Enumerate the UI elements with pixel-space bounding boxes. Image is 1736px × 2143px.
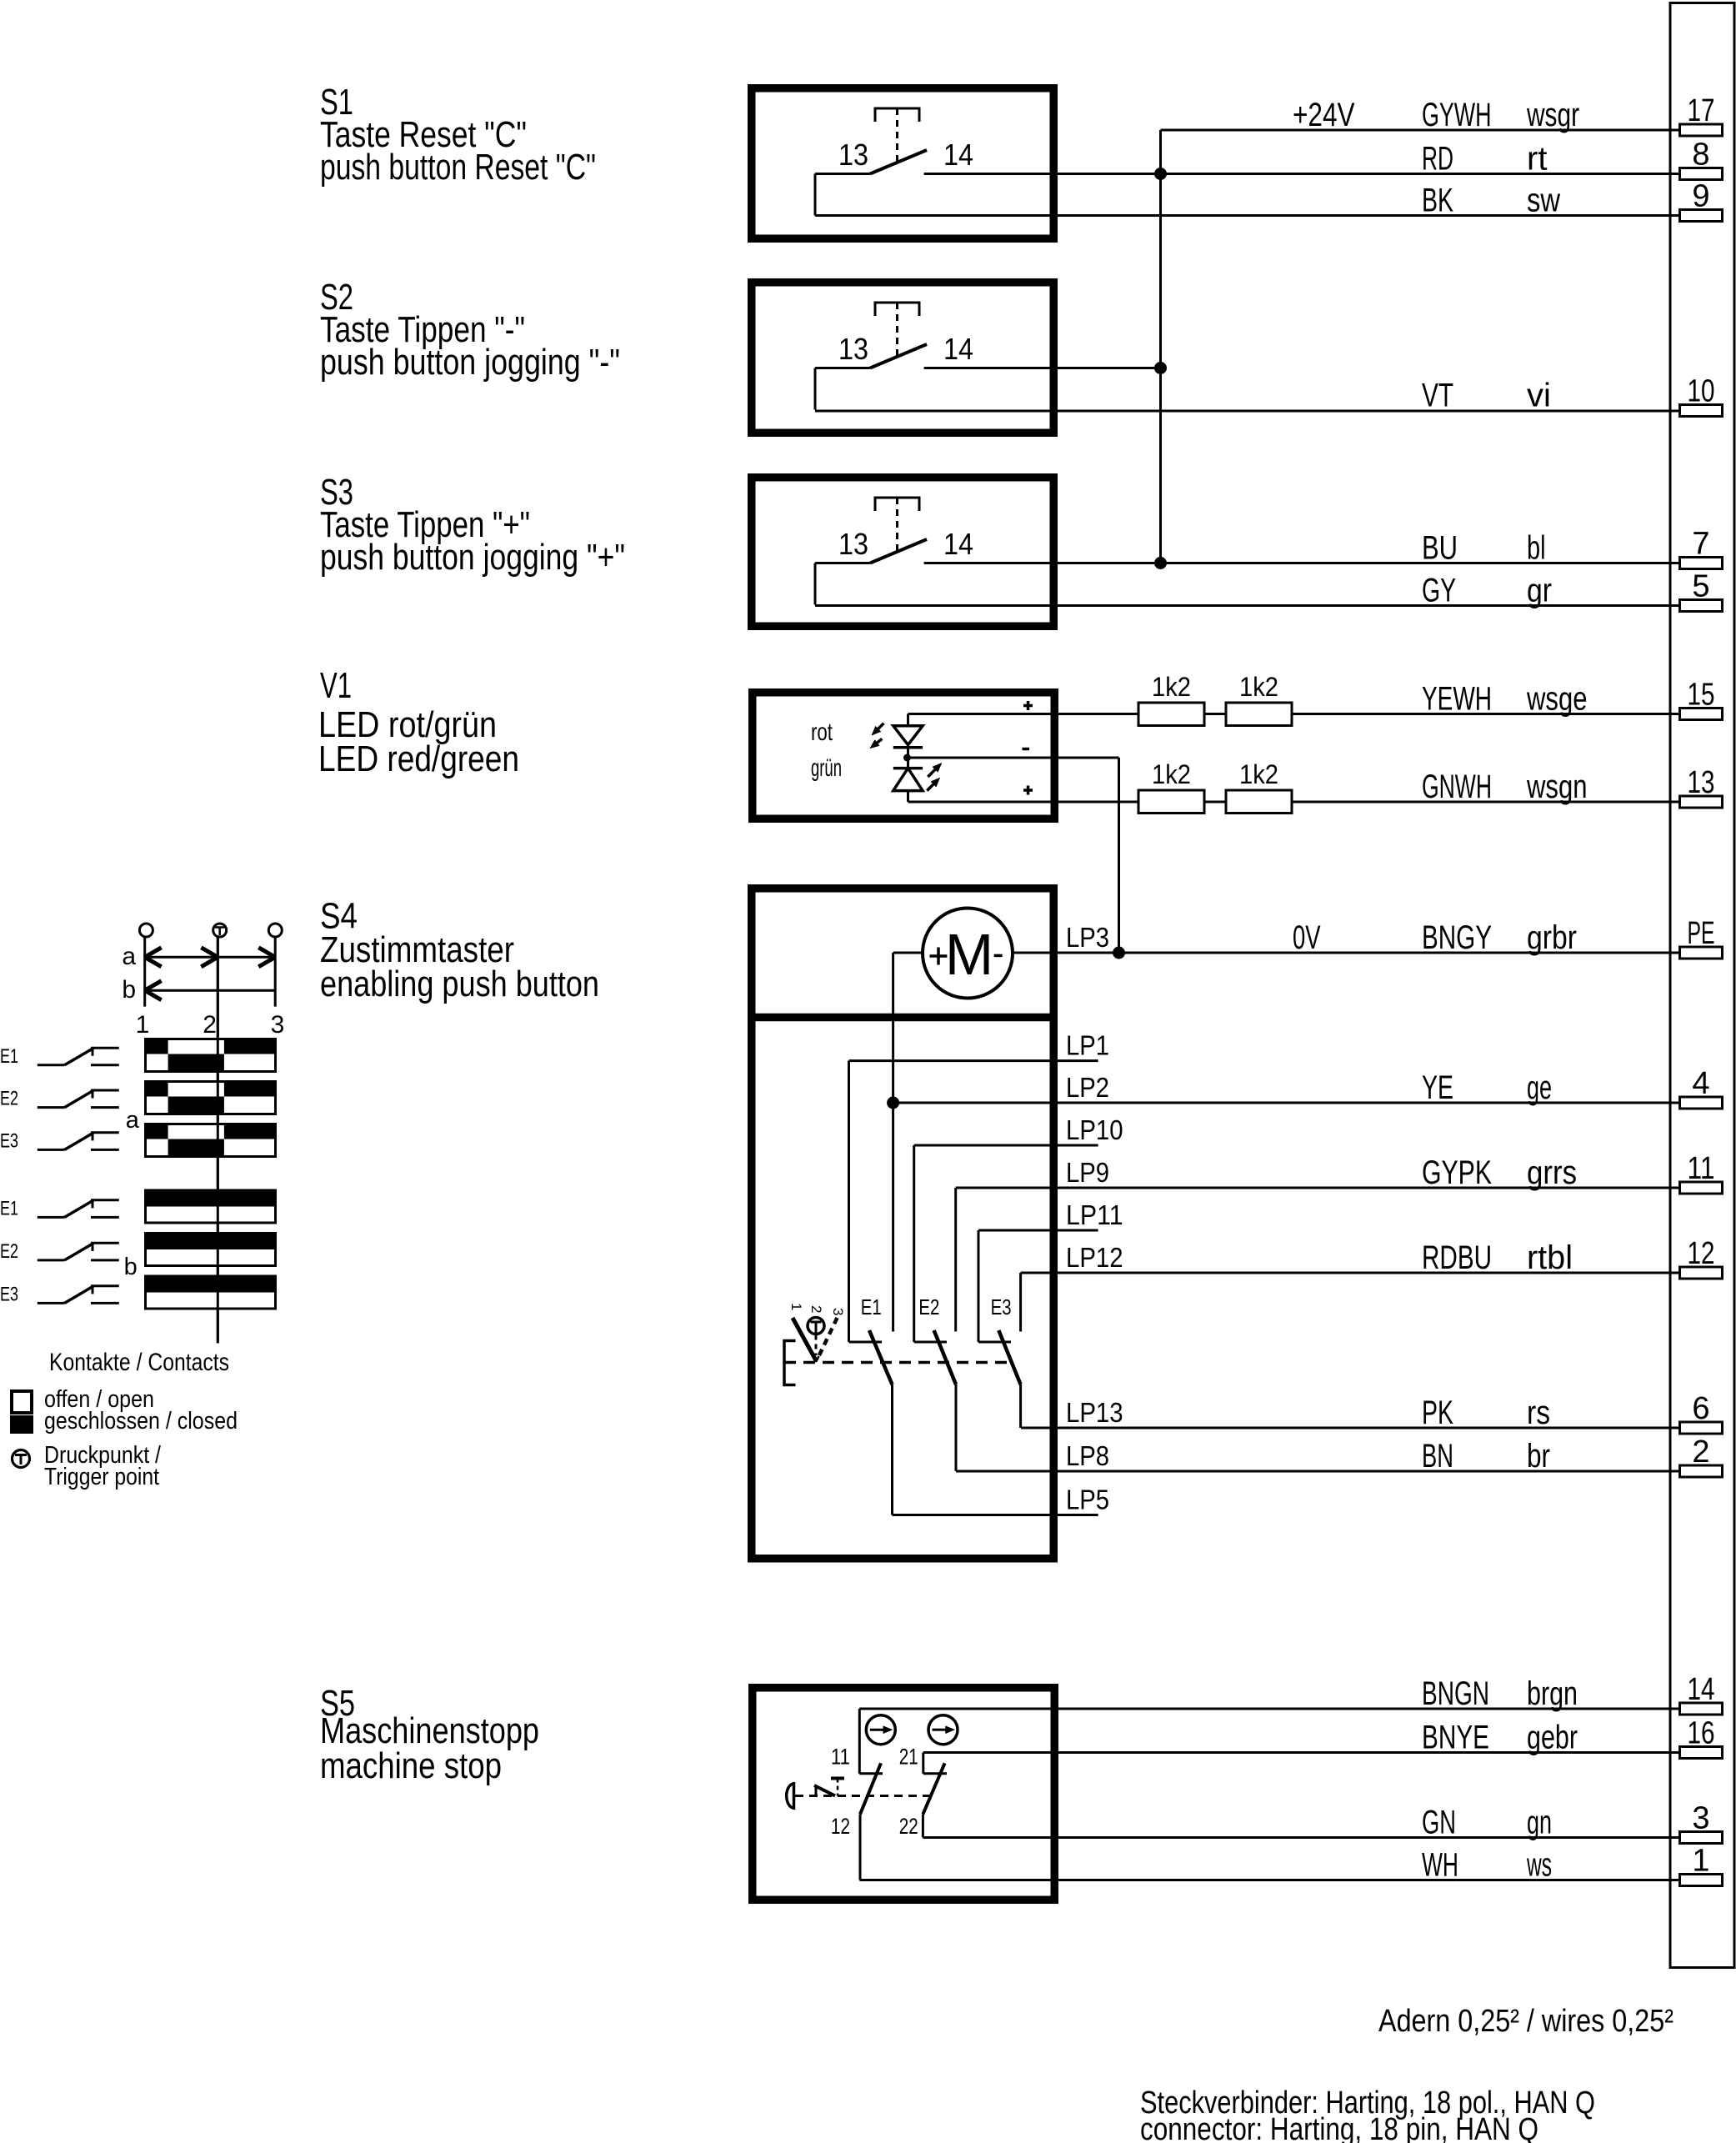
svg-text:11: 11 bbox=[1688, 1151, 1715, 1186]
svg-text:M: M bbox=[945, 922, 993, 987]
svg-text:LP1: LP1 bbox=[1066, 1030, 1109, 1061]
svg-text:13: 13 bbox=[1688, 765, 1715, 800]
svg-text:8: 8 bbox=[1692, 138, 1709, 173]
svg-text:push button jogging "-": push button jogging "-" bbox=[320, 342, 620, 383]
svg-text:13: 13 bbox=[838, 332, 868, 366]
svg-text:5: 5 bbox=[1692, 569, 1709, 604]
svg-text:ws: ws bbox=[1526, 1847, 1552, 1884]
svg-text:E3: E3 bbox=[0, 1283, 18, 1305]
svg-text:PK: PK bbox=[1422, 1394, 1453, 1431]
svg-text:LP3: LP3 bbox=[1066, 922, 1109, 953]
svg-text:13: 13 bbox=[838, 527, 868, 561]
svg-text:brgn: brgn bbox=[1527, 1675, 1578, 1712]
svg-text:YE: YE bbox=[1422, 1069, 1453, 1106]
svg-text:1k2: 1k2 bbox=[1152, 672, 1191, 702]
svg-text:GN: GN bbox=[1422, 1805, 1456, 1841]
svg-text:connector: Harting, 18 pin, HA: connector: Harting, 18 pin, HAN Q bbox=[1140, 2112, 1538, 2143]
svg-text:RD: RD bbox=[1422, 141, 1453, 178]
svg-text:E3: E3 bbox=[0, 1129, 18, 1152]
svg-text:GYPK: GYPK bbox=[1422, 1154, 1492, 1191]
svg-text:6: 6 bbox=[1692, 1391, 1709, 1426]
svg-text:GYWH: GYWH bbox=[1422, 97, 1492, 133]
svg-text:a: a bbox=[122, 943, 136, 970]
svg-text:BN: BN bbox=[1422, 1438, 1453, 1475]
svg-text:1k2: 1k2 bbox=[1152, 759, 1191, 789]
svg-text:9: 9 bbox=[1692, 179, 1709, 214]
svg-text:21: 21 bbox=[899, 1745, 918, 1770]
svg-text:14: 14 bbox=[943, 527, 973, 561]
svg-text:E1: E1 bbox=[861, 1294, 882, 1319]
svg-text:10: 10 bbox=[1688, 374, 1715, 409]
svg-text:4: 4 bbox=[1692, 1066, 1709, 1101]
svg-text:LED red/green: LED red/green bbox=[318, 739, 519, 779]
svg-text:1: 1 bbox=[1692, 1844, 1709, 1879]
svg-text:sw: sw bbox=[1527, 183, 1560, 219]
svg-text:BNGN: BNGN bbox=[1422, 1675, 1489, 1712]
svg-text:12: 12 bbox=[1688, 1236, 1715, 1271]
svg-text:WH: WH bbox=[1422, 1847, 1458, 1884]
svg-text:LP11: LP11 bbox=[1066, 1199, 1123, 1230]
svg-text:LP12: LP12 bbox=[1066, 1242, 1123, 1273]
svg-text:gr: gr bbox=[1527, 573, 1552, 609]
svg-text:grrs: grrs bbox=[1527, 1154, 1577, 1191]
svg-text:rt: rt bbox=[1527, 141, 1547, 178]
svg-text:14: 14 bbox=[943, 138, 973, 172]
svg-text:22: 22 bbox=[899, 1814, 918, 1839]
svg-text:LP10: LP10 bbox=[1066, 1114, 1123, 1145]
svg-text:vi: vi bbox=[1527, 378, 1551, 414]
svg-text:b: b bbox=[122, 976, 136, 1004]
svg-text:3: 3 bbox=[1692, 1801, 1709, 1836]
svg-text:br: br bbox=[1527, 1438, 1550, 1475]
svg-text:RDBU: RDBU bbox=[1422, 1239, 1492, 1276]
svg-text:grbr: grbr bbox=[1527, 919, 1577, 956]
svg-text:13: 13 bbox=[838, 138, 868, 172]
svg-text:1: 1 bbox=[136, 1011, 150, 1039]
svg-text:wsge: wsge bbox=[1526, 681, 1587, 718]
svg-text:push button jogging "+": push button jogging "+" bbox=[320, 537, 625, 578]
svg-text:grün: grün bbox=[811, 754, 842, 782]
svg-text:E2: E2 bbox=[0, 1240, 18, 1263]
svg-text:3: 3 bbox=[271, 1011, 285, 1039]
svg-text:+24V: +24V bbox=[1293, 97, 1355, 133]
svg-text:2: 2 bbox=[1692, 1435, 1709, 1470]
svg-text:E3: E3 bbox=[991, 1294, 1012, 1319]
svg-text:push button Reset "C": push button Reset "C" bbox=[320, 147, 596, 188]
svg-text:Adern 0,25² / wires 0,25²: Adern 0,25² / wires 0,25² bbox=[1378, 2004, 1673, 2039]
svg-text:enabling push button: enabling push button bbox=[320, 964, 599, 1004]
svg-text:YEWH: YEWH bbox=[1422, 681, 1492, 718]
svg-text:E2: E2 bbox=[918, 1294, 939, 1319]
svg-text:gn: gn bbox=[1527, 1805, 1552, 1841]
svg-text:rs: rs bbox=[1527, 1394, 1550, 1431]
svg-text:VT: VT bbox=[1422, 378, 1453, 414]
svg-text:7: 7 bbox=[1692, 527, 1709, 562]
svg-text:ge: ge bbox=[1527, 1069, 1552, 1106]
svg-text:PE: PE bbox=[1688, 916, 1715, 951]
svg-text:14: 14 bbox=[943, 332, 973, 366]
svg-text:bl: bl bbox=[1527, 530, 1546, 567]
svg-text:rtbl: rtbl bbox=[1527, 1239, 1573, 1276]
svg-text:2: 2 bbox=[808, 1305, 824, 1313]
svg-text:LP5: LP5 bbox=[1066, 1485, 1109, 1515]
svg-text:LP2: LP2 bbox=[1066, 1072, 1109, 1103]
svg-text:E1: E1 bbox=[0, 1197, 18, 1219]
svg-text:12: 12 bbox=[831, 1814, 850, 1839]
svg-text:BNGY: BNGY bbox=[1422, 919, 1492, 956]
svg-text:Trigger point: Trigger point bbox=[44, 1464, 159, 1490]
svg-text:Kontakte / Contacts: Kontakte / Contacts bbox=[49, 1349, 229, 1376]
svg-text:0V: 0V bbox=[1293, 919, 1321, 956]
svg-text:LP9: LP9 bbox=[1066, 1157, 1109, 1188]
svg-text:machine stop: machine stop bbox=[320, 1745, 502, 1786]
svg-text:E1: E1 bbox=[0, 1045, 18, 1068]
svg-text:BU: BU bbox=[1422, 530, 1458, 567]
svg-text:2: 2 bbox=[203, 1011, 217, 1039]
svg-text:LP13: LP13 bbox=[1066, 1397, 1123, 1428]
svg-text:BNYE: BNYE bbox=[1422, 1720, 1489, 1756]
svg-text:GY: GY bbox=[1422, 573, 1456, 609]
svg-text:b: b bbox=[124, 1254, 138, 1280]
svg-text:a: a bbox=[126, 1107, 140, 1134]
svg-text:17: 17 bbox=[1688, 93, 1715, 128]
svg-text:wsgr: wsgr bbox=[1526, 97, 1579, 133]
svg-text:gebr: gebr bbox=[1527, 1720, 1578, 1756]
svg-text:wsgn: wsgn bbox=[1526, 769, 1587, 805]
svg-text:1: 1 bbox=[788, 1303, 804, 1310]
svg-text:BK: BK bbox=[1422, 183, 1453, 219]
svg-text:rot: rot bbox=[811, 719, 833, 746]
svg-text:11: 11 bbox=[831, 1745, 850, 1770]
svg-text:E2: E2 bbox=[0, 1088, 18, 1110]
svg-text:3: 3 bbox=[830, 1308, 846, 1315]
svg-text:V1: V1 bbox=[320, 665, 352, 706]
svg-text:GNWH: GNWH bbox=[1422, 769, 1492, 805]
svg-text:geschlossen / closed: geschlossen / closed bbox=[44, 1408, 238, 1435]
svg-text:1k2: 1k2 bbox=[1239, 759, 1278, 789]
svg-text:1k2: 1k2 bbox=[1239, 672, 1278, 702]
svg-text:16: 16 bbox=[1688, 1716, 1715, 1751]
svg-text:15: 15 bbox=[1688, 678, 1715, 713]
svg-text:14: 14 bbox=[1688, 1672, 1715, 1707]
svg-text:LP8: LP8 bbox=[1066, 1440, 1109, 1471]
